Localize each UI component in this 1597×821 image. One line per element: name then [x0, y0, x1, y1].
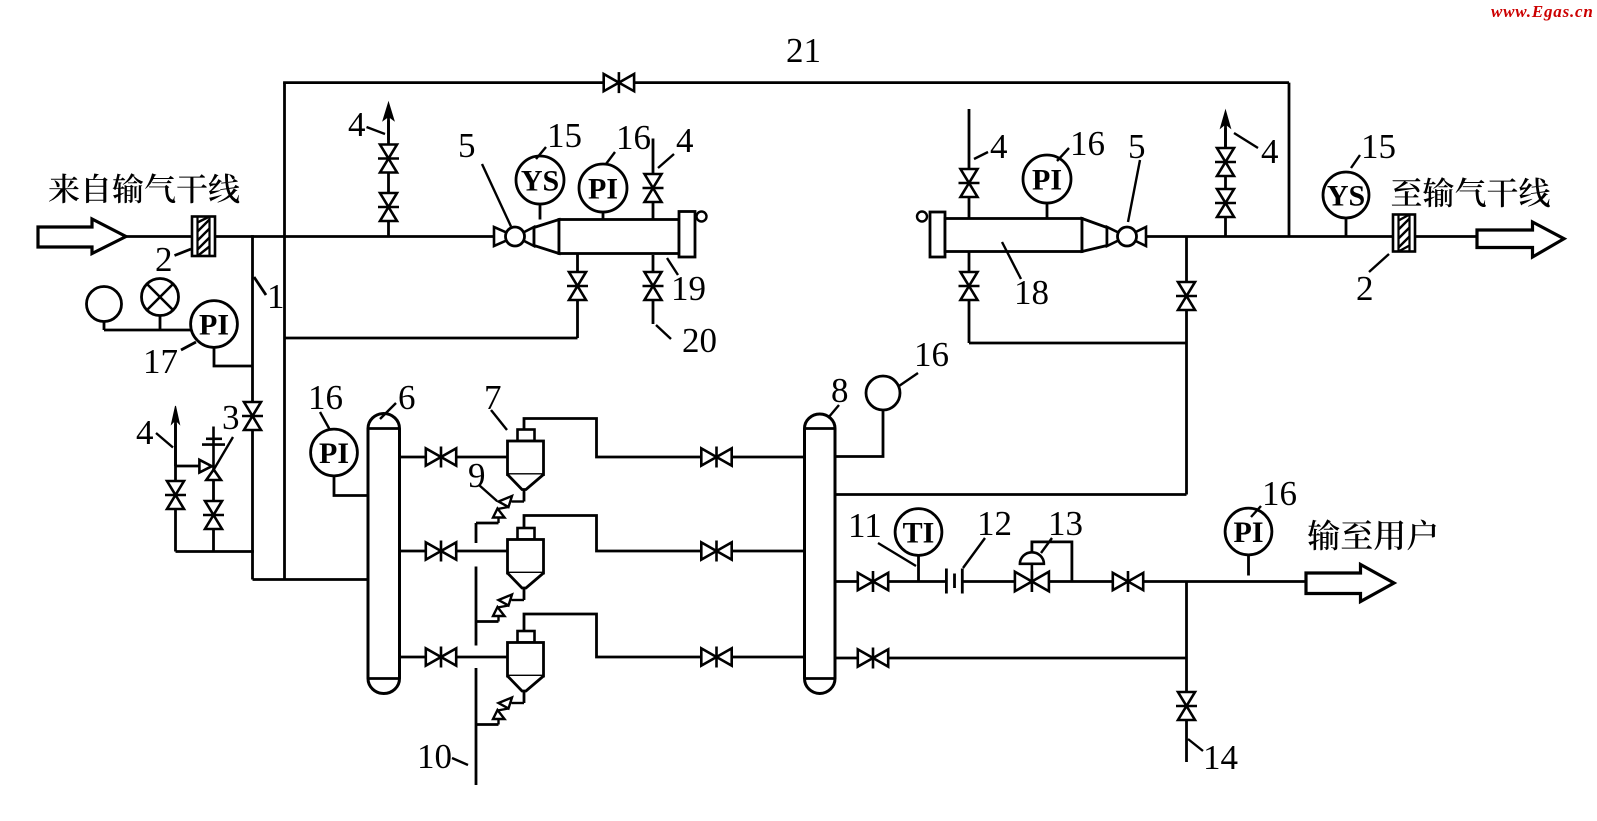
filter separator 18: cone [1082, 219, 1107, 252]
label 4 leader (outlet riser) [1234, 133, 1258, 148]
relief arrow on inlet-main riser [383, 103, 394, 121]
valve on separator 18 drain [961, 272, 978, 286]
label 14 leader [1188, 739, 1203, 751]
label 16 leader (user line) [1251, 506, 1261, 517]
wire: PI 16 stem on separator 5 [602, 210, 605, 220]
wire: separator 5 drain header to downcomer [285, 337, 578, 340]
svg-text:4: 4 [1261, 132, 1279, 171]
filter separator 18: outlet valve 5 [1107, 227, 1127, 246]
svg-text:16: 16 [308, 378, 343, 417]
valve on manifold 6 outlet 2 [426, 542, 441, 559]
svg-text:4: 4 [676, 121, 694, 160]
svg-text:15: 15 [547, 116, 582, 155]
label 9 leader [479, 485, 497, 501]
svg-text:4: 4 [990, 127, 1008, 166]
label 16 leader (manifold 8) [899, 373, 918, 386]
label 16 leader (separator 18) [1057, 148, 1069, 161]
svg-text:14: 14 [1203, 738, 1238, 777]
svg-text:10: 10 [417, 737, 452, 776]
wire: drain line 10 segment a [475, 523, 478, 543]
valve on manifold 6 outlet 3 [426, 648, 441, 665]
wire: feed line into manifold 6 [253, 578, 369, 581]
PI gauge 17 [191, 301, 238, 348]
svg-text:13: 13 [1048, 504, 1083, 543]
wire: vent assembly inlet to safety valve [176, 465, 200, 468]
svg-text:5: 5 [1128, 127, 1146, 166]
svg-text:16: 16 [1070, 124, 1105, 163]
inlet flow arrow [38, 219, 126, 254]
svg-text:16: 16 [914, 335, 949, 374]
svg-text:20: 20 [682, 321, 717, 360]
filter separator 5: cone [534, 220, 559, 254]
wire: cyclone 1 overhead [524, 419, 805, 458]
wire: YS 15 stem (inlet side) [539, 202, 542, 220]
label 15 leader (inlet) [536, 147, 546, 159]
text: 至输气干线 [1392, 177, 1550, 207]
wire: vent assembly middle branch below safety valve [212, 478, 215, 552]
label 5 leader [482, 164, 511, 227]
upper valve on inlet-main riser [380, 145, 397, 159]
manifold vessel 6 [368, 414, 400, 694]
PI gauge 16 on separator 18 [1023, 155, 1071, 203]
wire: main line from joint 2 to inlet valve of separator 5 [215, 235, 494, 238]
YS gauge 15 (outlet) [1323, 172, 1369, 218]
svg-text:19: 19 [671, 269, 706, 308]
lower valve on inlet-main riser [380, 193, 397, 207]
wire: bypass line 21 [283, 81, 1289, 84]
wire: inlet main line [124, 235, 192, 238]
wire: gauge manifold of PI 17 [104, 329, 191, 332]
wire: gauge 16 tap on manifold 8 [835, 408, 883, 457]
user outlet flow arrow [1306, 565, 1394, 602]
safety valve 3 (angle relief) [199, 460, 211, 473]
wire: manifold 6 outlet 1 [400, 456, 508, 459]
valve on riser x=1186.5 [1178, 282, 1195, 296]
gauge cock (circle-X) on PI 17 manifold [159, 316, 162, 331]
valve on cyclone 3 overhead [701, 648, 716, 665]
wire: separator 18 drain drop [968, 252, 971, 344]
svg-text:5: 5 [458, 126, 476, 165]
label 2 leader (outlet) [1369, 254, 1389, 272]
wire: user line drain leg [1185, 582, 1188, 763]
filter separator 18: quick-open closure [917, 212, 927, 222]
label 10 leader [452, 758, 468, 765]
valve 14 on drain leg [1178, 692, 1195, 706]
filter separator 5: body [559, 220, 679, 254]
label 4 leader (separator 18 vent) [974, 152, 988, 159]
TI gauge 11 [895, 509, 942, 556]
wire: separator 5 drain right (blowdown 20) [652, 255, 655, 324]
label 11 leader [878, 543, 916, 566]
wire: riser x=1186.5 from outlet main to collect line [1185, 237, 1188, 495]
valve on manifold 6 outlet 1 [426, 448, 441, 465]
svg-text:12: 12 [977, 504, 1012, 543]
svg-text:8: 8 [831, 371, 849, 410]
wire: TI 11 stem [917, 554, 920, 582]
cyclone separator (bottom) [518, 631, 535, 643]
valve on separator 18 vent [961, 169, 978, 183]
label 2 leader [175, 249, 192, 256]
cyclone separator (middle) [518, 528, 535, 540]
svg-text:9: 9 [468, 456, 486, 495]
svg-text:16: 16 [1262, 474, 1297, 513]
label 4 leader (inlet-main riser) [367, 127, 386, 134]
insulating joint 2 (outlet) [1393, 215, 1415, 252]
svg-text:3: 3 [222, 398, 240, 437]
label 20 leader [656, 325, 671, 339]
outlet flow arrow [1477, 222, 1564, 257]
wire: cyclone 2 overhead [524, 516, 805, 552]
svg-text:2: 2 [155, 240, 173, 279]
svg-text:YS: YS [1327, 179, 1365, 212]
valve 3 on line 1 [244, 402, 261, 416]
PI gauge 16 on user line [1225, 508, 1272, 555]
valve on user line (second) [1113, 573, 1128, 590]
wire: user line (right part) [962, 580, 1306, 583]
wire: cyclone 3 overhead [524, 614, 805, 657]
vent arrow (assembly 4) [172, 406, 180, 424]
svg-text:PI: PI [1234, 516, 1264, 549]
wire: regulator 13 sensing line [1032, 542, 1072, 582]
YS gauge 15 (inlet) [516, 156, 564, 204]
label 16 leader (separator 5) [606, 152, 615, 164]
wire: manifold 8 to riser (collect line y=494.5) [835, 493, 1187, 496]
orifice meter 12 [945, 569, 948, 594]
wire: user line (left part) [835, 580, 946, 583]
label 15 leader (outlet) [1351, 155, 1360, 168]
wire: cyclone 1 drain stub [476, 522, 499, 525]
lower valve on outlet-main riser [1217, 189, 1234, 203]
svg-text:TI: TI [903, 516, 935, 549]
wire: bypass right drop to outlet main [1288, 83, 1291, 237]
valve on separator 5 drain right [645, 272, 662, 286]
filter separator 18: body [945, 219, 1082, 252]
valve below safety valve [205, 501, 222, 515]
label 18 leader [1002, 242, 1021, 279]
filter separator 5: quick-open closure [679, 212, 695, 258]
filter separator 5: inlet valve [494, 227, 516, 246]
label 12 leader [963, 538, 985, 568]
label 3 leader [214, 437, 234, 470]
wire: PI 17 tap to line 1 [214, 345, 253, 366]
svg-text:15: 15 [1361, 127, 1396, 166]
wire: vent assembly left branch [174, 424, 177, 552]
svg-text:4: 4 [348, 105, 366, 144]
svg-text:6: 6 [398, 378, 416, 417]
svg-text:17: 17 [143, 342, 178, 381]
svg-text:16: 16 [616, 118, 651, 157]
svg-text:11: 11 [848, 506, 882, 545]
wire: outlet main line [1146, 235, 1393, 238]
svg-text:21: 21 [786, 31, 821, 70]
PI gauge 16 on separator 5 [579, 164, 627, 212]
svg-text:PI: PI [319, 437, 349, 470]
wire: PI 16 stem on separator 18 [1046, 201, 1049, 219]
svg-text:YS: YS [521, 164, 559, 197]
valve on user line (first) [858, 573, 873, 590]
wire: outlet main line after joint 2 [1415, 235, 1477, 238]
label 4 leader (separator 5 vent) [658, 154, 674, 168]
wire: YS 15 stem (outlet) [1345, 217, 1348, 237]
wire: vent riser on separator 18 [968, 109, 971, 219]
wire: riser/downcomer at x=284.5 (bypass leg and manifold feed) [283, 83, 286, 580]
svg-text:1: 1 [267, 277, 285, 316]
text: 输至用户 [1308, 519, 1436, 550]
label 1 leader [254, 277, 266, 295]
wire: cyclone 2 drain stub [476, 620, 499, 623]
valve on cyclone 1 overhead [701, 448, 716, 465]
label 6 leader [380, 403, 396, 419]
svg-text:PI: PI [199, 308, 229, 341]
PI gauge 16 on manifold 6 [311, 429, 358, 476]
valve on separator 5 vent [645, 174, 662, 188]
wire: drain line 10 segment c [475, 668, 478, 785]
text: 来自输气干线 [49, 173, 239, 203]
pressure regulator 13 [1015, 572, 1032, 591]
svg-text:PI: PI [588, 172, 618, 205]
valve on cyclone 2 overhead [701, 542, 716, 559]
wire: lower header from manifold 8 [835, 657, 1187, 660]
wire: line 1 (station inlet header drop) [251, 235, 254, 579]
label 19 leader [667, 258, 678, 275]
manifold vessel 8 [805, 414, 836, 694]
label 7 leader [491, 410, 507, 430]
svg-text:www.Egas.cn: www.Egas.cn [1491, 2, 1594, 21]
wire: separator 5 drain left [576, 254, 579, 339]
wire: relief riser on outlet main [1224, 128, 1227, 237]
svg-text:4: 4 [136, 413, 154, 452]
svg-text:7: 7 [484, 378, 502, 417]
wire: PI 16 stem on user line [1247, 553, 1250, 576]
label 13 leader [1041, 538, 1052, 553]
wire: separator 18 drain header [969, 342, 1187, 345]
cyclone separator 7 (top) [518, 430, 535, 442]
label 4 leader (vent assembly) [156, 433, 173, 448]
insulating joint 2 (inlet) [192, 217, 215, 257]
relief arrow on outlet-main riser [1221, 111, 1231, 129]
wire: vent riser on separator 5 [652, 139, 655, 220]
wire: cyclone 3 drain stub [476, 723, 499, 726]
wire: drain line 10 segment b [475, 567, 478, 646]
svg-text:18: 18 [1014, 273, 1049, 312]
label 5 leader (separator 18) [1128, 160, 1140, 222]
valve 21 on bypass [604, 74, 619, 91]
svg-text:2: 2 [1356, 269, 1374, 308]
wire: PI 16 tap to manifold 6 [334, 474, 368, 496]
valve on separator 5 drain left [569, 272, 586, 286]
valve on lower header [858, 649, 873, 666]
label 16 leader (manifold 6) [320, 412, 330, 430]
wire: manifold 6 outlet 2 [400, 550, 508, 553]
valve on vent branch left [167, 481, 184, 495]
wire: manifold 6 outlet 3 [400, 656, 508, 659]
upper valve on outlet-main riser [1217, 148, 1234, 162]
label 17 leader [181, 342, 196, 350]
wire: vent assembly bottom header [176, 550, 254, 553]
pressure gauge (on PI 17 manifold) [103, 322, 106, 331]
wire: relief riser on inlet main [387, 121, 390, 237]
svg-text:PI: PI [1032, 163, 1062, 196]
label 8 leader [828, 405, 839, 418]
gauge 16 on manifold 8 [866, 376, 900, 410]
